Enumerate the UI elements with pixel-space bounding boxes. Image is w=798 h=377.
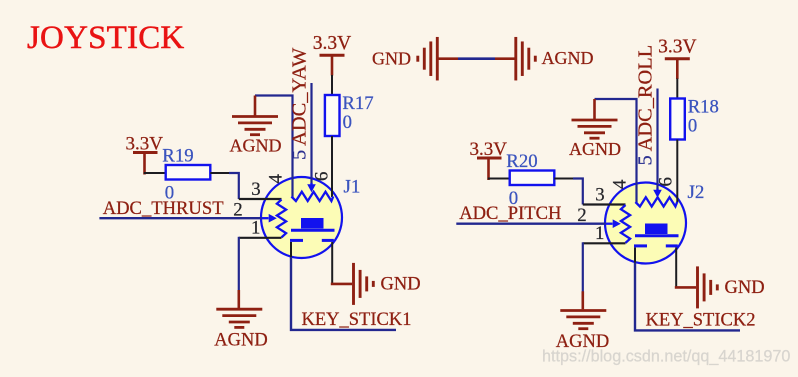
ground stem AGND (pin 4) [254,96,257,117]
svg-text:https://blog.csdn.net/qq_44181: https://blog.csdn.net/qq_44181970 [542,348,790,366]
ground AGND symbol (pin 1) [216,309,262,327]
potentiometer top axis inside J1 [291,192,333,201]
power stem [676,59,679,79]
wire pin 3 [239,198,282,200]
svg-text:R20: R20 [506,151,537,172]
ground GND symbol (sideways) [354,263,374,305]
svg-text:1: 1 [251,218,260,239]
svg-text:1: 1 [595,223,604,244]
svg-text:GND: GND [372,49,411,69]
wire pin 1 down to AGND [582,242,584,292]
power bar 3.3V [133,151,158,154]
wire net ADC_ROLL (pin 5) [656,89,658,190]
wire AGND to pin 4 [595,99,637,203]
power stem [331,55,334,75]
wire pin 3 [583,203,626,205]
button contact right [322,239,334,242]
ground GND symbol (net tie left) [418,37,438,80]
ground lead GND [331,283,352,286]
svg-text:2: 2 [233,200,242,221]
wire R20 to corner [554,178,574,180]
wiper arrow left pot (pin 2) [262,217,269,219]
wire 3.3V to R17 [331,75,333,95]
ground AGND symbol (pin 1) [560,311,606,329]
svg-text:KEY_STICK2: KEY_STICK2 [646,311,756,331]
svg-text:4: 4 [610,179,631,189]
svg-text:ADC_THRUST: ADC_THRUST [103,198,225,219]
svg-text:AGND: AGND [569,139,621,159]
wiper arrow top pot (pin 5) [656,189,658,191]
resistor R20 [510,171,555,186]
svg-text:AGND: AGND [230,136,282,156]
button contact right [666,244,678,247]
wire button right pin to GND [675,248,677,289]
wire net ADC_THRUST (pin 2) [99,217,261,219]
svg-text:R17: R17 [342,93,373,114]
wire pin 1 [583,242,626,244]
connector J2 joystick body [605,183,686,264]
potentiometer left axis inside J1 [277,200,286,238]
ground AGND symbol (net tie right) [516,37,536,80]
push button inside J1 [301,218,324,229]
power bar 3.3V [665,57,690,60]
wire net KEY_STICK2 [635,263,740,331]
ground GND symbol (sideways) [698,266,718,308]
svg-text:3.3V: 3.3V [313,33,351,54]
svg-text:5 ADC_YAW: 5 ADC_YAW [289,47,311,160]
wire R19 to corner [210,172,230,174]
svg-text:J2: J2 [688,182,705,203]
svg-text:0: 0 [343,112,352,133]
svg-text:JOYSTICK: JOYSTICK [27,20,184,56]
resistor R18 [670,99,685,140]
wire net ADC_PITCH (pin 2) [456,222,605,224]
wire AGND to pin 4 [255,96,293,198]
svg-text:4: 4 [266,174,287,184]
ground stem AGND (pin 1) [238,290,241,308]
button contact left [634,244,647,247]
ground AGND symbol (pin 4) [232,117,278,135]
net-tie lead left [438,57,458,60]
wire R18 to pin 6 [676,140,678,203]
svg-text:2: 2 [577,205,586,226]
svg-text:3: 3 [595,185,604,206]
svg-text:ADC_PITCH: ADC_PITCH [459,203,561,224]
svg-text:GND: GND [381,275,421,295]
resistor R19 [166,165,211,180]
wire 3.3V to R19 [144,172,166,174]
ground stem AGND (pin 1) [581,291,584,309]
svg-text:0: 0 [688,116,697,137]
svg-text:R19: R19 [162,146,193,167]
svg-text:R18: R18 [688,97,719,118]
ground AGND symbol (pin 4) [572,120,618,138]
wire button left pin [290,242,292,258]
net-tie lead right [495,57,515,60]
svg-text:6: 6 [656,177,677,186]
button contact left [290,239,303,242]
wire pin 1 [239,237,282,239]
svg-text:AGND: AGND [214,331,267,351]
svg-text:6: 6 [312,172,333,181]
wire net tie [458,57,495,60]
wiper arrow left pot (pin 2) [606,223,613,225]
wire corner R20 down to pin 3 [573,179,583,205]
wire net ADC_YAW (pin 5) [310,83,312,184]
wire net KEY_STICK1 [291,257,396,330]
wire 3.3V to R20 [488,178,510,180]
svg-text:AGND: AGND [542,48,594,68]
svg-text:3.3V: 3.3V [658,37,696,58]
push button inside J2 [645,224,668,235]
svg-text:J1: J1 [344,177,361,198]
wire button left pin [634,248,636,264]
wire corner R19 down to pin 3 [229,173,239,199]
potentiometer top axis inside J2 [635,197,677,206]
svg-text:GND: GND [725,278,765,298]
power stem [487,158,490,180]
wire R17 to pin 6 [331,136,333,197]
power bar 3.3V [320,54,345,57]
power stem [143,153,146,175]
wire pin 1 down to AGND [238,237,240,291]
power bar 3.3V [477,157,502,160]
wire button right pin to GND [331,242,333,285]
ground stem AGND (pin 4) [593,99,596,120]
potentiometer left axis inside J2 [621,205,630,243]
wire 3.3V to R18 [676,79,678,99]
connector J1 joystick body [261,177,342,258]
svg-text:3: 3 [251,179,260,200]
svg-text:KEY_STICK1: KEY_STICK1 [302,310,412,330]
svg-text:5 ADC_ROLL: 5 ADC_ROLL [635,45,657,166]
ground lead GND [675,286,696,289]
wiper arrow top pot (pin 5) [310,183,312,185]
resistor R17 [325,95,340,136]
